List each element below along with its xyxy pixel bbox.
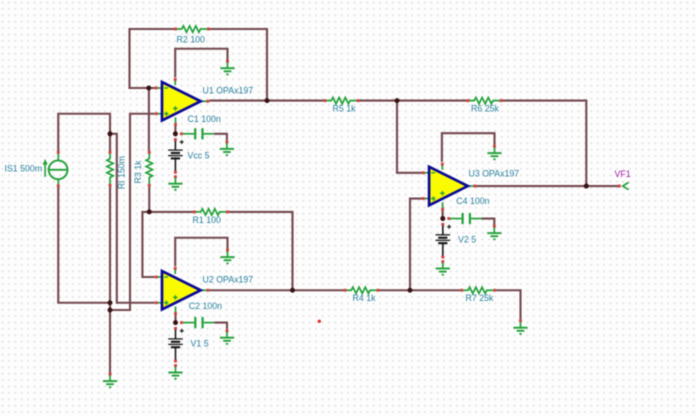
- wire R7 right to ground: [496, 290, 520, 319]
- resistor R5: [324, 98, 360, 104]
- ground U1 loop: [220, 60, 234, 75]
- svg-text:V2 5: V2 5: [458, 234, 476, 244]
- node U1 output junction: [265, 98, 270, 103]
- resistor RI (shunt): [107, 151, 113, 187]
- node U1 inverting junction: [146, 86, 151, 91]
- wire R3 bottom to node C: [148, 187, 150, 212]
- wire R6 right down to U3 output: [502, 101, 586, 185]
- wire U1 inverting node to R3 top: [148, 90, 150, 152]
- current source IS1: [43, 151, 68, 187]
- resistor R7: [460, 287, 496, 293]
- svg-text:RI 150m: RI 150m: [117, 156, 127, 189]
- svg-text:R4 1k: R4 1k: [353, 293, 377, 303]
- ground Vcc: [168, 175, 182, 190]
- battery Vcc: [168, 138, 184, 174]
- wire U1 output to R5: [209, 100, 323, 102]
- wire U1 noninverting input down to node B: [111, 114, 155, 310]
- svg-text:C4 100n: C4 100n: [456, 196, 489, 206]
- svg-text:IS1 500m: IS1 500m: [5, 164, 43, 174]
- wire U1 bottom pin to C1 node: [174, 126, 176, 134]
- resistor R3: [146, 151, 152, 187]
- ground C1: [220, 141, 234, 156]
- svg-text:R2 100: R2 100: [177, 34, 205, 44]
- op-amp U2: [155, 267, 210, 315]
- node U2 output junction: [290, 288, 295, 293]
- ground U3 loop: [487, 145, 501, 160]
- node C1/Vcc junction: [173, 131, 178, 136]
- wire node E down to U3 inverting input: [397, 102, 422, 173]
- wire IS1 top to RI top (node A): [58, 114, 110, 151]
- ground C4: [487, 225, 501, 240]
- node U3 output junction: [584, 184, 589, 189]
- svg-text:V1 5: V1 5: [191, 338, 209, 348]
- node C junction (R3/R1): [147, 209, 152, 214]
- resistor R6: [467, 98, 503, 104]
- svg-text:R7 25k: R7 25k: [466, 293, 494, 303]
- ground V2: [436, 260, 450, 275]
- svg-text:R6 25k: R6 25k: [471, 104, 499, 114]
- svg-text:VF1: VF1: [615, 169, 631, 179]
- node B junction lower: [108, 308, 113, 313]
- ground U2 loop: [220, 249, 234, 264]
- wire node D up to U3 noninverting input: [410, 199, 422, 289]
- svg-text:Vcc 5: Vcc 5: [188, 150, 210, 160]
- svg-text:C1 100n: C1 100n: [188, 114, 221, 124]
- wire node A to U2 noninverting input: [110, 134, 155, 303]
- svg-text:R1 100: R1 100: [193, 215, 221, 225]
- node D junction (R4/R7): [408, 288, 413, 293]
- wire node C to R1 left: [151, 211, 193, 213]
- op-amp U3: [422, 163, 477, 211]
- op-amp U1: [155, 78, 210, 126]
- ground R7: [513, 319, 527, 334]
- node E junction (R5/R6): [395, 98, 400, 103]
- svg-text:U2 OPAx197: U2 OPAx197: [203, 275, 254, 285]
- wire U2 output to R4: [209, 289, 343, 291]
- svg-text:U1 OPAx197: U1 OPAx197: [203, 86, 254, 96]
- wire U1 feedback left (R2 loop): [130, 29, 175, 88]
- wire U3 bottom pin to C4 node: [442, 210, 444, 219]
- output pin VF1: [618, 182, 629, 189]
- wire U1 top pin loop to ground: [175, 49, 227, 78]
- wire IS1 bottom to node B: [58, 187, 109, 303]
- node B junction upper: [108, 300, 113, 305]
- wire U3 top pin loop to ground: [442, 133, 495, 162]
- svg-text:C2 100n: C2 100n: [189, 301, 222, 311]
- battery V1: [168, 327, 184, 362]
- node C2/V1 junction: [173, 320, 178, 325]
- node C4/V2 junction: [440, 216, 445, 221]
- wire U2 top pin loop to ground: [175, 238, 227, 267]
- wire R4 to R7 (node D): [379, 289, 460, 291]
- svg-text:R5 1k: R5 1k: [333, 104, 357, 114]
- ground V1: [168, 364, 182, 379]
- resistor R4: [344, 287, 380, 293]
- ground main: [103, 373, 117, 388]
- battery V2: [436, 223, 452, 259]
- svg-text:R3 1k: R3 1k: [133, 160, 143, 184]
- wire R1 right down to U2 output: [229, 212, 293, 289]
- stray red marker dot: [318, 320, 321, 323]
- capacitor C1: [180, 128, 214, 139]
- node A junction (RI top): [108, 131, 113, 136]
- wire U2 bottom pin to C2 node: [174, 315, 176, 323]
- capacitor C4: [447, 213, 481, 224]
- wire R5 to R6 (node E): [359, 100, 466, 102]
- wire RI bottom to ground node: [109, 187, 111, 373]
- ground C2: [220, 329, 234, 344]
- wire U3 output to VF1: [476, 185, 618, 187]
- resistor R2: [174, 26, 210, 32]
- capacitor C2: [180, 317, 214, 328]
- svg-text:U3 OPAx197: U3 OPAx197: [469, 169, 520, 179]
- wire node C to U2 inverting input: [142, 212, 154, 277]
- wire U1 feedback right (R2 to output): [210, 29, 267, 101]
- resistor R1: [193, 209, 229, 215]
